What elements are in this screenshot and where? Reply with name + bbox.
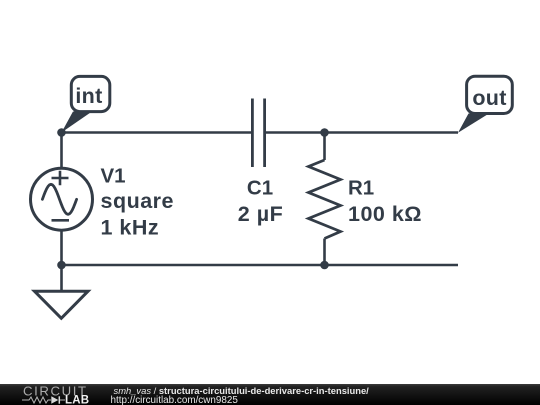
svg-text:int: int — [75, 84, 102, 108]
footer attribution text — [111, 385, 370, 405]
resistor R1 — [309, 160, 341, 239]
svg-text:http://circuitlab.com/cwn9825: http://circuitlab.com/cwn9825 — [111, 395, 239, 405]
svg-text:2 µF: 2 µF — [238, 202, 283, 226]
wire V1 top lead — [60, 133, 63, 169]
node out flag — [458, 76, 512, 133]
wire V1 bottom lead — [60, 230, 63, 265]
node junction R1 bottom — [320, 261, 329, 270]
svg-text:100 kΩ: 100 kΩ — [348, 202, 422, 226]
wire R1 bottom lead — [323, 239, 326, 266]
svg-text:R1: R1 — [348, 176, 374, 199]
wire top rail left segment — [62, 131, 252, 134]
node junction at int — [57, 128, 66, 137]
node junction ground — [57, 261, 66, 270]
node int flag — [62, 76, 110, 132]
footer bar — [0, 384, 540, 405]
svg-text:square: square — [101, 189, 175, 213]
svg-text:C1: C1 — [247, 176, 273, 199]
wire top rail right segment — [266, 131, 458, 134]
svg-text:LAB: LAB — [65, 395, 89, 405]
svg-text:1 kHz: 1 kHz — [101, 215, 160, 239]
svg-text:V1: V1 — [101, 164, 126, 187]
voltage source V1 — [31, 168, 93, 230]
label R1 value — [348, 176, 422, 226]
capacitor C1 — [252, 99, 264, 168]
node junction R1 top — [320, 128, 329, 137]
wire bottom rail — [62, 264, 459, 267]
label V1 value — [101, 164, 175, 239]
label C1 value — [238, 176, 283, 226]
svg-text:out: out — [472, 86, 506, 110]
ground — [35, 265, 89, 318]
footer CircuitLab logo — [22, 384, 89, 405]
wire R1 top lead — [323, 133, 326, 161]
